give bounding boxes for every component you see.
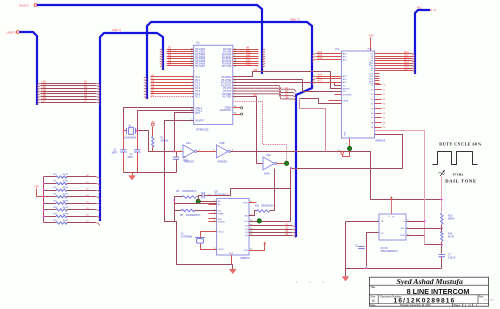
svg-text:EST: EST xyxy=(244,202,249,204)
svg-text:IN-: IN- xyxy=(218,204,221,206)
svg-text:R10: R10 xyxy=(255,205,260,207)
svg-text:LN7: LN7 xyxy=(42,100,47,103)
wire U3A out to node xyxy=(277,163,287,165)
capacitor C1 xyxy=(120,150,126,152)
wire riser up xyxy=(290,189,292,222)
wire C4 left xyxy=(199,196,203,202)
svg-text:AY0: AY0 xyxy=(318,74,323,77)
svg-text:Size: Size xyxy=(370,296,375,299)
svg-text:9.8304MHZ: 9.8304MHZ xyxy=(124,137,137,139)
wire tone vert join xyxy=(425,244,442,246)
svg-text:300K0M200: 300K0M200 xyxy=(261,205,274,207)
svg-text:InO: InO xyxy=(244,221,248,223)
resistor R13 xyxy=(441,213,444,224)
svg-text:100K0M25/Y1: 100K0M25/Y1 xyxy=(182,191,197,193)
svg-text:+5v: +5v xyxy=(337,150,340,152)
wire C3 top xyxy=(176,152,178,157)
wire dial tone vertical xyxy=(441,177,443,213)
ground rail under osc xyxy=(124,172,177,174)
wire IC1 to tone vertical xyxy=(375,131,425,245)
svg-text:3.579545M: 3.579545M xyxy=(181,237,193,239)
svg-text:CD2: CD2 xyxy=(369,78,374,80)
wire C1 to ground rail xyxy=(123,153,125,173)
wire IN- from feed xyxy=(175,203,217,205)
svg-text:C5 U6: C5 U6 xyxy=(381,247,388,250)
ground 555 rail xyxy=(345,269,347,277)
wire R6 to GS xyxy=(195,210,217,212)
wire C3 to rail xyxy=(176,160,178,173)
annotation square wave xyxy=(433,152,478,165)
svg-text:OSC2: OSC2 xyxy=(218,249,225,251)
svg-text:P3.1/TXD: P3.1/TXD xyxy=(221,80,231,82)
svg-text:P3.7/RD: P3.7/RD xyxy=(223,97,232,99)
wire C2 to ground rail xyxy=(137,153,139,173)
svg-text:4k7W: 4k7W xyxy=(63,220,70,222)
svg-text:Syed Ashad Mustufa: Syed Ashad Mustufa xyxy=(396,277,463,286)
wire loop branch to R10 xyxy=(270,169,275,211)
junction IC1 bottom xyxy=(347,146,351,150)
IC1 AX wires from bus xyxy=(312,51,347,62)
svg-text:+5V: +5V xyxy=(151,121,156,124)
svg-text:P3.3/INT1: P3.3/INT1 xyxy=(221,85,232,87)
svg-text:4k7W: 4k7W xyxy=(63,207,70,209)
IC1 AY wires from bus xyxy=(312,74,347,85)
svg-text:30PF: 30PF xyxy=(128,157,134,159)
svg-text:P3.0/RXD: P3.0/RXD xyxy=(221,77,232,79)
junction Q xyxy=(424,220,426,222)
U1 P0 wires to bus xyxy=(160,47,194,69)
svg-text:4k7W: 4k7W xyxy=(63,187,70,189)
inverter U2B xyxy=(217,142,231,164)
svg-text:0.01UF: 0.01UF xyxy=(448,258,456,260)
svg-text:16/12K0289816: 16/12K0289816 xyxy=(394,298,456,305)
wire OSC2 stub xyxy=(209,249,217,251)
svg-text:DAIL TONE: DAIL TONE xyxy=(445,179,477,184)
svg-text:CD4: CD4 xyxy=(369,83,374,85)
svg-text:LN[0:7]: LN[0:7] xyxy=(6,30,15,34)
bus RL right vertical x415 xyxy=(415,10,430,74)
wire THR out xyxy=(407,235,425,237)
junction loop-DTMF riser xyxy=(290,167,292,169)
svg-text:GS: GS xyxy=(218,211,222,213)
svg-text:VDD: VDD xyxy=(370,61,372,66)
svg-text:+5V: +5V xyxy=(368,34,373,38)
U1 P3 pin numbers xyxy=(234,77,237,99)
U1 ALE stub xyxy=(233,114,241,116)
resistor R1 xyxy=(152,137,155,148)
U1 XTAL1 wire xyxy=(124,108,194,131)
U1 RST wire xyxy=(175,113,194,152)
svg-text:CD3: CD3 xyxy=(369,81,374,83)
svg-text:555/SAMES/SO: 555/SAMES/SO xyxy=(381,250,398,253)
svg-text:P1.1: P1.1 xyxy=(195,80,200,82)
junction R14 C7 xyxy=(441,244,443,246)
svg-text:P1.4: P1.4 xyxy=(195,88,200,90)
resistor R10 300K xyxy=(257,210,270,213)
wire TR left xyxy=(346,221,379,223)
svg-text:CS: CS xyxy=(343,91,347,93)
IC U6 555 timer xyxy=(379,214,406,253)
resistor R14 xyxy=(441,232,444,242)
svg-text:PWDN: PWDN xyxy=(218,222,225,224)
svg-text:P1.0: P1.0 xyxy=(195,77,200,79)
vertical R5/R6 feed xyxy=(174,197,176,222)
svg-text:4069/SO: 4069/SO xyxy=(218,160,228,163)
svg-text:8 LINE INTERCOM: 8 LINE INTERCOM xyxy=(407,287,470,296)
crystal X1 xyxy=(124,125,137,139)
svg-text:EN: EN xyxy=(245,216,248,218)
capacitor C5 xyxy=(358,246,364,248)
svg-text:A15: A15 xyxy=(246,64,251,67)
long wire U2B out to dial network xyxy=(231,152,442,200)
svg-text:4069/SO: 4069/SO xyxy=(184,160,194,163)
U5 left pins xyxy=(209,200,225,251)
svg-text:DUTY CYCLE 60%: DUTY CYCLE 60% xyxy=(439,141,482,146)
U1 PSEN stub xyxy=(233,107,241,109)
capacitor C3 xyxy=(173,157,179,159)
svg-text:R14: R14 xyxy=(448,234,453,236)
wire TR down to bottom rail xyxy=(346,222,442,269)
wire R1 bottom to osc net xyxy=(152,147,154,152)
wire U2A out to U2B in xyxy=(197,151,217,153)
junction feed xyxy=(173,199,175,201)
svg-text:RL[0:7]: RL[0:7] xyxy=(19,3,28,7)
svg-text:U1: U1 xyxy=(196,41,200,45)
U1 P1 wires to bus xyxy=(144,75,194,100)
junction xtal right xyxy=(136,130,138,132)
svg-text:WR: WR xyxy=(254,70,258,72)
ground DTMF xyxy=(229,269,236,273)
capacitor C4 xyxy=(202,192,204,198)
resistor R5 xyxy=(182,196,196,199)
svg-text:VDD: VDD xyxy=(367,49,372,51)
IC1 bottom enable cluster xyxy=(343,139,350,157)
bus RL[0:7] top horizontal xyxy=(37,5,262,74)
svg-text:AX2: AX2 xyxy=(318,57,323,60)
svg-text:TOE: TOE xyxy=(243,250,248,252)
wire C7 to rail xyxy=(441,257,443,269)
svg-text:P1.2: P1.2 xyxy=(195,83,200,85)
IC IC1 MT8816 xyxy=(336,47,386,143)
inverter U2A xyxy=(183,142,197,164)
wire into U2A xyxy=(174,151,183,153)
svg-text:4k7W: 4k7W xyxy=(63,213,70,215)
grid dots xyxy=(296,281,324,284)
junction InO xyxy=(257,219,261,223)
svg-text:CD0: CD0 xyxy=(369,74,374,76)
svg-text:4k7W: 4k7W xyxy=(63,174,70,176)
svg-text:AX0: AX0 xyxy=(318,51,323,54)
svg-text:RST: RST xyxy=(195,113,200,115)
wire P3.2 to IC1 xyxy=(233,83,342,86)
wire R6 left xyxy=(175,210,182,212)
svg-text:VREF: VREF xyxy=(218,213,224,215)
svg-text:AX1: AX1 xyxy=(318,54,323,57)
svg-text:OSC1: OSC1 xyxy=(218,231,225,233)
IC1 left control pins xyxy=(300,85,353,151)
IC1 inner extra pin names xyxy=(345,61,380,136)
svg-text:Rev:: Rev: xyxy=(479,296,484,299)
wire EA loop down xyxy=(165,152,232,265)
svg-text:U3A: U3A xyxy=(266,154,271,157)
junction xtal left xyxy=(123,130,125,132)
inverter U3A xyxy=(263,154,277,176)
svg-text:RL[..: RL[.. xyxy=(417,5,423,9)
svg-text:P3.5/T1: P3.5/T1 xyxy=(223,91,232,93)
junction CV rail xyxy=(365,267,367,269)
svg-text:RL7: RL7 xyxy=(404,68,409,71)
wire xtal left lead xyxy=(124,130,127,132)
svg-text:R13: R13 xyxy=(448,216,453,218)
wire X2 to OSC2 xyxy=(201,244,209,250)
U5 Q1-Q4 wires to bus xyxy=(245,224,296,239)
power +5V 555 reset xyxy=(390,196,393,214)
U6 pin names xyxy=(377,216,409,237)
wire R13-R14 xyxy=(441,225,443,232)
wire R14 to C7 xyxy=(441,242,443,254)
junction U3A output xyxy=(284,161,288,165)
annotation source arrow xyxy=(439,170,445,176)
capacitor C2 xyxy=(134,150,140,152)
wire C4 right to riser xyxy=(205,189,231,196)
IC1 Y stub pins xyxy=(371,85,386,130)
svg-text:INH: INH xyxy=(218,219,222,221)
svg-text:VSS: VSS xyxy=(229,253,234,255)
svg-text:UM9870: UM9870 xyxy=(240,257,250,260)
dashed net RD/WR to U3A node xyxy=(233,102,287,164)
svg-text:4k7W: 4k7W xyxy=(63,194,70,196)
svg-text:100K0M25/Y1: 100K0M25/Y1 xyxy=(186,215,201,217)
svg-text:VSS: VSS xyxy=(345,131,347,136)
power +5V TOE xyxy=(263,242,266,246)
LN0-LN7 wires between buses xyxy=(37,81,99,105)
IC U5 DTMF decoder xyxy=(215,190,251,259)
svg-text:[0..7]: [0..7] xyxy=(430,8,436,12)
junction dial node xyxy=(441,199,443,201)
U5 TOE wire to +5V xyxy=(249,245,265,251)
svg-text:P1.5: P1.5 xyxy=(195,91,200,93)
bus left vertical x100 xyxy=(100,33,163,221)
title block frame xyxy=(369,277,488,306)
svg-text:4069: 4069 xyxy=(264,172,270,175)
svg-text:500KW: 500KW xyxy=(161,141,169,143)
U1 P2 wires to bus xyxy=(233,47,266,69)
wire U5 InO to riser xyxy=(249,221,291,223)
svg-text:U2B: U2B xyxy=(220,142,225,145)
wire P3.1 to IC1 xyxy=(233,80,342,92)
svg-text:RESET: RESET xyxy=(343,88,351,90)
svg-text:TR: TR xyxy=(381,221,384,223)
wire C1 top xyxy=(123,131,125,150)
svg-text:Q: Q xyxy=(403,221,405,223)
junction XTAL1 node xyxy=(173,151,175,153)
wire P3.0 to IC1 xyxy=(233,72,342,89)
svg-text:U2A: U2A xyxy=(186,142,191,145)
pull-up resistor ladder R3-R12 xyxy=(43,174,100,226)
svg-text:P3.2/INT0: P3.2/INT0 xyxy=(221,83,232,85)
wire Q out xyxy=(407,221,425,223)
svg-text:P1.7: P1.7 xyxy=(195,97,200,99)
junction DIS xyxy=(441,227,443,229)
svg-text:P3.4/T0: P3.4/T0 xyxy=(223,88,232,90)
wire xtal right lead xyxy=(136,131,174,152)
U5 right upper pins xyxy=(244,201,257,223)
svg-text:+5V: +5V xyxy=(34,185,39,189)
svg-text:4k7W: 4k7W xyxy=(63,200,70,202)
U1 pin names xyxy=(195,48,232,123)
port RL[0:7] xyxy=(34,4,37,7)
U1 XTAL2 wire xyxy=(138,111,194,131)
wire loop to ground xyxy=(232,265,233,270)
svg-text:Title:: Title: xyxy=(370,286,376,289)
wire R5 to IN+ xyxy=(197,197,217,202)
svg-text:STROBE: STROBE xyxy=(343,94,353,96)
svg-text:THR: THR xyxy=(400,235,405,237)
svg-text:P1.3: P1.3 xyxy=(195,85,200,87)
resistor R6 xyxy=(181,209,195,212)
svg-text:PSEN: PSEN xyxy=(225,108,232,110)
U1 P3.3-P3.6 wires to bus xyxy=(233,85,296,101)
U5 VSS wire to ground xyxy=(231,255,233,265)
svg-text:971Hz: 971Hz xyxy=(453,172,464,176)
wire C2 top xyxy=(137,131,139,150)
capacitor C7 xyxy=(439,255,445,257)
port LN[0:7] xyxy=(16,31,19,34)
svg-text:4k7W: 4k7W xyxy=(448,237,455,239)
svg-text:30PF: 30PF xyxy=(112,153,118,155)
svg-text:CV: CV xyxy=(381,233,385,235)
svg-text:65KW: 65KW xyxy=(448,219,455,221)
svg-text:RD: RD xyxy=(254,95,258,97)
bus LN[0:7] left xyxy=(19,32,37,105)
wire R5 left xyxy=(175,196,183,198)
wire DIS out xyxy=(407,228,442,230)
crystal X2 xyxy=(181,234,205,244)
ground osc xyxy=(132,173,134,176)
wire P3.7 to U3A input xyxy=(233,97,263,164)
svg-text:P1.6: P1.6 xyxy=(195,94,200,96)
svg-text:AY1: AY1 xyxy=(318,77,323,80)
junction IN+ node xyxy=(196,199,200,203)
wire IC1 loop to DTMF xyxy=(231,135,403,189)
svg-text:P3.6/WR: P3.6/WR xyxy=(222,94,232,96)
bus middle horizontal y22 xyxy=(147,22,312,237)
svg-text:DIS: DIS xyxy=(401,228,405,230)
wire OSC1 to X2 xyxy=(201,232,209,238)
U1 EA wire to loop xyxy=(165,121,194,152)
svg-text:4k7W: 4k7W xyxy=(63,181,70,183)
IC1 X wires to RL bus xyxy=(371,51,415,73)
IC U1 AT89C52 xyxy=(194,41,233,132)
power +5V at R1 xyxy=(151,123,154,126)
wire CV to C5 xyxy=(367,233,379,267)
svg-text:CD1: CD1 xyxy=(369,76,374,78)
svg-text:AT89C52: AT89C52 xyxy=(196,128,209,132)
svg-text:AY2: AY2 xyxy=(318,80,323,83)
